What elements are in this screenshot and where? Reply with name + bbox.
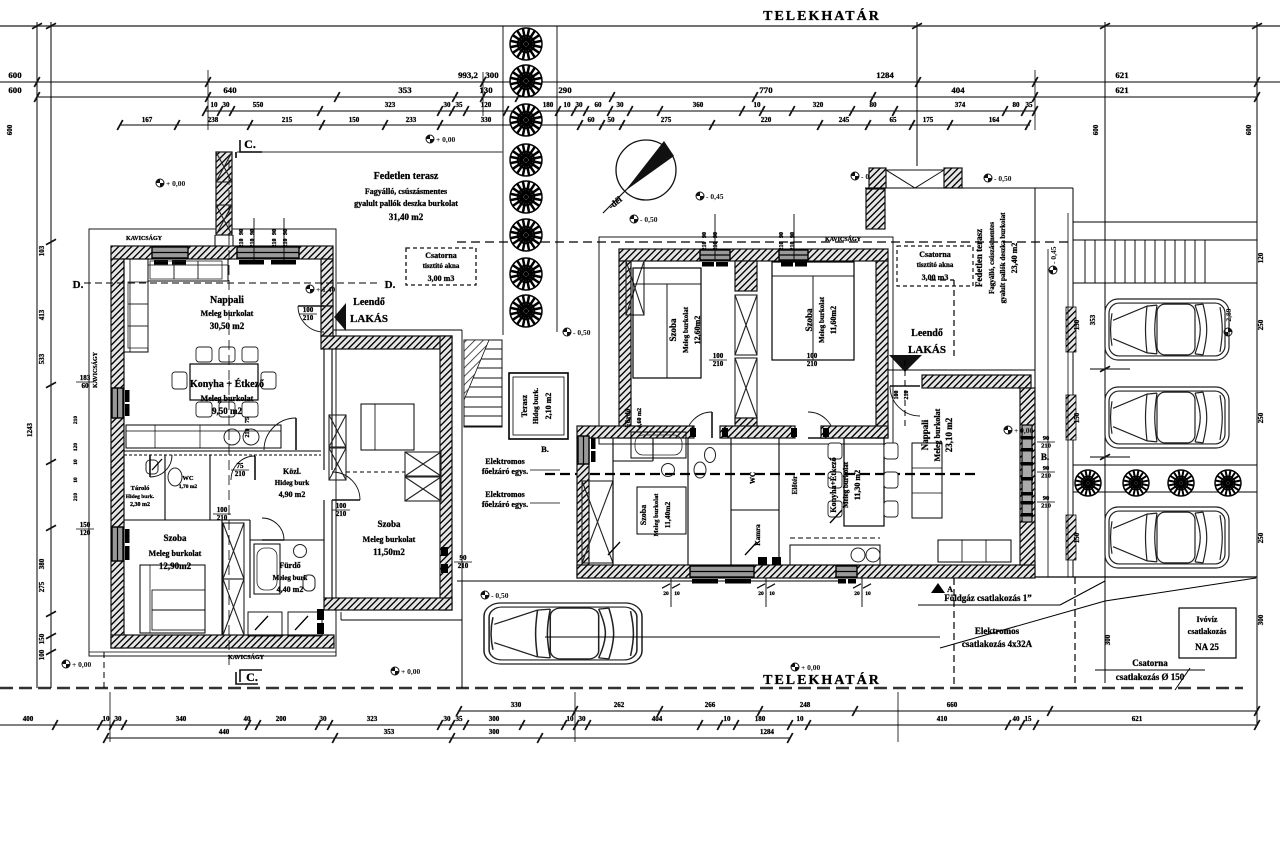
svg-text:120: 120 [80, 529, 91, 537]
svg-text:130: 130 [479, 85, 493, 95]
dashed line mid [545, 473, 975, 475]
svg-text:LAKÁS: LAKÁS [350, 313, 388, 325]
svg-text:90: 90 [702, 232, 708, 238]
svg-text:621: 621 [1115, 70, 1128, 80]
svg-text:Szoba: Szoba [804, 308, 814, 332]
svg-text:30,50 m2: 30,50 m2 [210, 321, 245, 331]
svg-text:60: 60 [588, 116, 596, 124]
svg-text:600: 600 [1092, 124, 1100, 135]
svg-text:Hideg burk: Hideg burk [275, 479, 310, 487]
svg-text:Meleg burkolat: Meleg burkolat [818, 296, 826, 343]
corner pillar B1 [626, 261, 644, 315]
window A left wall [112, 388, 123, 418]
tree strip verticals [502, 26, 504, 335]
svg-text:90: 90 [713, 232, 719, 238]
svg-text:210: 210 [713, 360, 724, 368]
window axis lines B top [714, 214, 716, 261]
cistern box B [897, 246, 973, 286]
svg-text:150: 150 [1073, 532, 1081, 543]
svg-text:12,90m2: 12,90m2 [159, 561, 192, 571]
door arcs interior A [231, 456, 255, 480]
konyha table B [844, 438, 884, 526]
svg-text:220: 220 [761, 116, 772, 124]
svg-text:1284: 1284 [760, 728, 775, 736]
svg-text:330: 330 [481, 116, 492, 124]
svg-text:Meleg burkolat: Meleg burkolat [149, 549, 202, 558]
svg-text:Hideg burk.: Hideg burk. [532, 388, 540, 424]
svg-text:993,2: 993,2 [458, 70, 478, 80]
svg-text:103: 103 [38, 245, 46, 256]
svg-text:10: 10 [674, 591, 680, 597]
svg-text:300: 300 [489, 728, 500, 736]
svg-text:10: 10 [211, 101, 219, 109]
svg-text:LAKÁS: LAKÁS [908, 344, 946, 356]
building B right wall [1020, 388, 1035, 565]
svg-text:Terasz: Terasz [520, 394, 529, 417]
svg-text:770: 770 [759, 85, 773, 95]
svg-text:90: 90 [272, 229, 278, 235]
svg-text:10: 10 [73, 477, 79, 483]
svg-text:210: 210 [458, 562, 469, 570]
svg-text:Elektromos: Elektromos [485, 457, 524, 466]
bed east wing [361, 404, 414, 450]
svg-text:+ 0,00: + 0,00 [436, 135, 456, 144]
svg-text:262: 262 [614, 701, 625, 709]
terrace north edge line [237, 151, 503, 153]
svg-text:210: 210 [239, 239, 245, 248]
svg-text:Fürdő: Fürdő [279, 561, 300, 570]
svg-text:200: 200 [276, 715, 287, 723]
svg-text:Kamra: Kamra [754, 524, 762, 546]
dashed vertical parking edge [1074, 577, 1076, 688]
svg-text:266: 266 [705, 701, 716, 709]
svg-text:353: 353 [384, 728, 395, 736]
svg-text:+ 0,00: + 0,00 [401, 667, 421, 676]
svg-text:167: 167 [142, 116, 153, 124]
glazed door B right wall [1022, 425, 1032, 522]
furdo A label [249, 520, 251, 598]
svg-text:Fedetlen terasz: Fedetlen terasz [974, 229, 984, 287]
wc room fixtures A small row [168, 468, 182, 486]
level marks site left [156, 179, 186, 188]
svg-text:főelzáró egys.: főelzáró egys. [482, 467, 528, 476]
svg-text:Leendő: Leendő [911, 328, 943, 339]
dashed section line x104 [103, 652, 105, 688]
svg-text:210: 210 [245, 429, 251, 438]
svg-text:+ 0,00: + 0,00 [72, 660, 92, 669]
svg-text:Nappali: Nappali [210, 295, 244, 306]
dashed line kitchen B [790, 537, 880, 539]
svg-text:NA 25: NA 25 [1195, 642, 1219, 652]
top dim chain row1 [0, 81, 1280, 83]
svg-text:Hideg burk.: Hideg burk. [126, 494, 155, 500]
svg-text:533: 533 [38, 353, 46, 364]
stall separators [1090, 368, 1130, 370]
svg-text:Leendő: Leendő [353, 297, 385, 308]
svg-text:1,70 m2: 1,70 m2 [179, 484, 198, 490]
door frame A bottom [317, 609, 324, 620]
svg-text:+ 0,00: + 0,00 [801, 663, 821, 672]
svg-text:175: 175 [923, 116, 934, 124]
washbasin A [294, 545, 307, 558]
svg-text:550: 550 [253, 101, 264, 109]
svg-text:640: 640 [223, 85, 237, 95]
svg-text:- 0,50: - 0,50 [994, 174, 1012, 183]
chimney connector lines A [214, 235, 216, 246]
building A top wall [111, 246, 333, 259]
svg-text:3,00 m3: 3,00 m3 [922, 273, 949, 282]
svg-text:210: 210 [713, 242, 719, 251]
ivoviz box [1179, 608, 1236, 658]
door frame B bottom terrace [758, 557, 767, 565]
svg-text:4,60 m2: 4,60 m2 [637, 408, 643, 428]
window A top 2 [237, 247, 299, 258]
svg-text:Nappali: Nappali [920, 419, 930, 450]
svg-text:440: 440 [219, 728, 230, 736]
svg-text:400: 400 [23, 715, 34, 723]
svg-text:320: 320 [813, 101, 824, 109]
svg-text:210: 210 [1041, 443, 1051, 450]
top dim chain row2 [37, 96, 1257, 98]
svg-text:Meleg burk: Meleg burk [273, 574, 308, 582]
svg-text:30: 30 [444, 715, 452, 723]
svg-text:180: 180 [543, 101, 554, 109]
tick stubs below B bottom wall [670, 578, 672, 607]
svg-text:250: 250 [1257, 532, 1265, 543]
svg-text:31,40 m2: 31,40 m2 [389, 212, 424, 222]
building A east wing top wall [321, 336, 452, 349]
svg-text:90: 90 [239, 229, 245, 235]
svg-text:210: 210 [336, 510, 347, 518]
svg-text:210: 210 [807, 360, 818, 368]
svg-text:Szoba: Szoba [377, 519, 401, 529]
svg-text:210: 210 [235, 470, 246, 478]
top dim chain row4 [120, 124, 1030, 126]
svg-text:Meleg burkolat: Meleg burkolat [653, 493, 660, 537]
section A marker south [931, 583, 945, 593]
svg-text:300: 300 [1257, 614, 1265, 625]
trees row lines [1073, 464, 1257, 466]
sofa B [938, 540, 1011, 562]
svg-text:100: 100 [217, 506, 228, 514]
svg-text:80: 80 [1013, 101, 1021, 109]
svg-text:275: 275 [38, 581, 46, 592]
svg-text:KAVICSÁGY: KAVICSÁGY [126, 234, 163, 242]
stairs wedge between buildings [464, 340, 502, 427]
svg-text:404: 404 [652, 715, 663, 723]
svg-text:3,00 m3: 3,00 m3 [428, 274, 455, 283]
building A east wing right wall [440, 336, 452, 610]
svg-text:Meleg burkolat: Meleg burkolat [201, 309, 254, 318]
svg-text:10: 10 [564, 101, 572, 109]
svg-text:Szoba: Szoba [668, 318, 678, 342]
svg-text:65: 65 [890, 116, 898, 124]
building B south block left wall [577, 438, 589, 578]
building B top wall [619, 249, 888, 261]
x shaft partition A [223, 523, 244, 579]
washbasin B bathroom [662, 464, 675, 477]
svg-text:210: 210 [303, 314, 314, 322]
svg-text:1284: 1284 [876, 70, 894, 80]
level on terrace A [426, 135, 456, 144]
svg-text:621: 621 [1115, 85, 1128, 95]
armchair B [912, 443, 942, 518]
svg-text:23,10 m2: 23,10 m2 [944, 417, 954, 452]
svg-text:75: 75 [245, 417, 251, 423]
svg-text:300: 300 [485, 70, 499, 80]
window A left wall lower [112, 527, 123, 561]
svg-text:210: 210 [779, 242, 785, 251]
svg-text:11,50m2: 11,50m2 [373, 547, 405, 557]
building A east wing bottom wall [324, 598, 452, 610]
door arrows A (diagonal leafs) [152, 459, 308, 630]
counter B with sinks [790, 545, 880, 565]
svg-text:180: 180 [755, 715, 766, 723]
svg-text:323: 323 [385, 101, 396, 109]
window B west wall [578, 436, 589, 464]
kitchen counter [126, 425, 281, 448]
svg-text:353: 353 [398, 85, 412, 95]
svg-text:380: 380 [38, 558, 46, 569]
property boundary top line [0, 25, 1280, 27]
svg-text:90: 90 [779, 232, 785, 238]
door black frames east wing wall [441, 547, 448, 556]
svg-text:Fagyálló, csúszásmentes: Fagyálló, csúszásmentes [988, 222, 996, 294]
svg-text:600: 600 [8, 85, 22, 95]
svg-text:100: 100 [38, 649, 46, 660]
entry arrow A [334, 303, 346, 331]
svg-text:300: 300 [489, 715, 500, 723]
building A envelope [89, 229, 336, 656]
svg-text:Fürdő: Fürdő [624, 408, 632, 427]
building B east bedroom wall [876, 261, 888, 438]
svg-text:10: 10 [865, 591, 871, 597]
svg-text:374: 374 [955, 101, 966, 109]
svg-text:621: 621 [1132, 715, 1143, 723]
property boundary bottom dashed line [0, 687, 1243, 690]
svg-text:100: 100 [894, 391, 900, 400]
svg-text:60: 60 [595, 101, 603, 109]
svg-text:4,90 m2: 4,90 m2 [279, 490, 306, 499]
building B mid shaft [735, 261, 757, 291]
svg-text:20: 20 [758, 591, 764, 597]
svg-text:210: 210 [1041, 503, 1051, 510]
building B nappali top wall [922, 375, 1031, 388]
svg-text:Meleg burkolat: Meleg burkolat [682, 306, 690, 353]
svg-text:90: 90 [790, 232, 796, 238]
svg-text:210: 210 [73, 493, 79, 502]
svg-text:80: 80 [870, 101, 878, 109]
level mark near north arrow [630, 215, 658, 224]
svg-text:75: 75 [237, 462, 245, 470]
svg-text:353: 353 [1089, 314, 1097, 325]
car bottom center [484, 603, 642, 664]
svg-text:- 0,50: - 0,50 [573, 328, 591, 337]
bathtub B [631, 432, 686, 458]
elotér partition B [778, 438, 780, 565]
svg-text:600: 600 [6, 124, 14, 135]
svg-text:- 0,50: - 0,50 [640, 215, 658, 224]
svg-text:100: 100 [336, 502, 347, 510]
bottom dim row short [459, 710, 1257, 712]
windows B top wall [700, 250, 730, 260]
svg-text:D.: D. [73, 279, 84, 291]
svg-text:9,50 m2: 9,50 m2 [212, 406, 242, 416]
svg-text:- 2,89: - 2,89 [1224, 308, 1233, 326]
svg-text:10: 10 [754, 101, 762, 109]
svg-text:23,40 m2: 23,40 m2 [1010, 243, 1019, 274]
stairs to parking [1085, 240, 1205, 283]
svg-text:Tároló: Tároló [131, 485, 150, 492]
svg-text:tisztító akna: tisztító akna [917, 261, 954, 269]
szoba bottom-left [221, 520, 223, 635]
parking wheel stop strips [1066, 307, 1076, 352]
svg-text:210: 210 [1041, 473, 1051, 480]
svg-text:30: 30 [115, 715, 123, 723]
svg-text:215: 215 [282, 116, 293, 124]
svg-text:120: 120 [1257, 252, 1265, 263]
window A top 1 [152, 247, 188, 258]
svg-text:164: 164 [989, 116, 1000, 124]
svg-text:30: 30 [223, 101, 231, 109]
svg-text:150: 150 [1073, 319, 1081, 330]
svg-text:35: 35 [456, 715, 464, 723]
top dim chain row3 [205, 110, 1035, 112]
bottom dim row lower [106, 737, 790, 739]
svg-text:Elektromos: Elektromos [485, 490, 524, 499]
svg-text:Meleg burkolat: Meleg burkolat [363, 535, 416, 544]
svg-text:gyalult pallók deszka burkolat: gyalult pallók deszka burkolat [999, 212, 1007, 303]
building B south bottom wall [577, 565, 1035, 578]
svg-text:300: 300 [1104, 634, 1112, 645]
svg-text:248: 248 [800, 701, 811, 709]
chimney pillar C top [216, 152, 232, 235]
svg-text:90: 90 [1043, 435, 1050, 442]
svg-text:30: 30 [444, 101, 452, 109]
svg-text:50: 50 [608, 116, 616, 124]
bedroom door arcs B [686, 412, 712, 438]
svg-text:TELEKHATÁR: TELEKHATÁR [763, 7, 881, 24]
building B left wall [619, 261, 631, 438]
left site verticals [36, 22, 38, 688]
svg-text:90: 90 [1043, 495, 1050, 502]
svg-text:210: 210 [250, 239, 256, 248]
svg-text:Fedetlen terasz: Fedetlen terasz [374, 171, 439, 182]
svg-text:600: 600 [1245, 124, 1253, 135]
svg-text:210: 210 [217, 514, 228, 522]
svg-text:210: 210 [702, 242, 708, 251]
svg-text:35: 35 [456, 101, 464, 109]
trees row east [1075, 470, 1101, 496]
svg-text:660: 660 [947, 701, 958, 709]
svg-text:C.: C. [244, 137, 256, 151]
left vertical dim chain [46, 239, 56, 245]
svg-text:90: 90 [1043, 465, 1050, 472]
svg-text:csatlakozás: csatlakozás [1188, 627, 1227, 636]
svg-text:Csatorna: Csatorna [1132, 658, 1168, 668]
svg-text:11,30 m2: 11,30 m2 [853, 470, 862, 500]
svg-text:Konyha+Étkező: Konyha+Étkező [828, 457, 838, 512]
svg-text:210: 210 [73, 416, 79, 425]
level B entrance [1004, 426, 1034, 435]
bottom dim row main [0, 724, 1257, 726]
corridor wall B hatched with door gaps [577, 426, 694, 438]
svg-text:340: 340 [176, 715, 187, 723]
south block interior B [589, 480, 613, 482]
svg-text:11,60m2: 11,60m2 [829, 306, 838, 334]
svg-text:238: 238 [208, 116, 219, 124]
dashed setback line upper [457, 241, 1072, 243]
svg-text:+ 1,40: + 1,40 [316, 285, 336, 294]
svg-text:Földgáz csatlakozás 1”: Földgáz csatlakozás 1” [944, 593, 1032, 603]
svg-text:323: 323 [367, 715, 378, 723]
svg-text:20: 20 [663, 591, 669, 597]
svg-text:12,60m2: 12,60m2 [693, 316, 702, 345]
svg-text:10: 10 [73, 459, 79, 465]
svg-text:WC: WC [182, 475, 194, 482]
svg-text:20: 20 [854, 591, 860, 597]
windows B bottom wall [690, 566, 754, 577]
building A left wall [111, 259, 124, 648]
svg-text:gyalult pallók deszka burkolat: gyalult pallók deszka burkolat [354, 199, 458, 208]
svg-text:233: 233 [406, 116, 417, 124]
svg-text:90: 90 [460, 554, 468, 562]
svg-text:120: 120 [481, 101, 492, 109]
svg-text:C.: C. [246, 670, 258, 684]
svg-text:KAVICSÁGY: KAVICSÁGY [91, 351, 99, 388]
trees column [510, 28, 542, 60]
svg-text:csatlakozás Ø 150: csatlakozás Ø 150 [1116, 672, 1185, 682]
wc seat A [303, 575, 315, 591]
building A east wall mid [321, 306, 333, 336]
entry arrow B [889, 355, 922, 372]
building A inner east wall upper [321, 259, 333, 306]
nappali entrance door arc B [890, 386, 920, 416]
svg-text:1243: 1243 [26, 423, 34, 438]
svg-text:4,40 m2: 4,40 m2 [277, 585, 304, 594]
svg-text:Szoba: Szoba [639, 505, 648, 525]
svg-text:10: 10 [797, 715, 805, 723]
building A bottom wall [111, 635, 334, 648]
svg-text:Szoba: Szoba [163, 533, 187, 543]
terasz box [509, 373, 568, 439]
svg-text:+ 0,00: + 0,00 [166, 179, 186, 188]
svg-text:Fagyálló, csúszásmentes: Fagyálló, csúszásmentes [365, 187, 447, 196]
svg-text:Meleg burkolat: Meleg burkolat [201, 394, 254, 403]
svg-text:100: 100 [807, 352, 818, 360]
svg-text:100: 100 [713, 352, 724, 360]
svg-text:Csatorna: Csatorna [919, 250, 951, 259]
svg-text:60: 60 [82, 382, 90, 390]
svg-text:275: 275 [661, 116, 672, 124]
sofa nappali [124, 259, 148, 352]
svg-text:413: 413 [38, 309, 46, 320]
svg-text:245: 245 [839, 116, 850, 124]
svg-text:30: 30 [617, 101, 625, 109]
section C marker bottom [240, 670, 262, 682]
parking top line [1073, 221, 1257, 223]
section line C vertical dash [228, 160, 230, 668]
svg-text:10: 10 [103, 715, 111, 723]
svg-text:Előtér: Előtér [791, 476, 799, 495]
door arc A entrance [298, 306, 324, 332]
svg-text:KAVICSÁGY: KAVICSÁGY [228, 653, 265, 661]
wc kamra partitions B [687, 438, 689, 565]
cistern box A [406, 248, 476, 285]
gas connection dashed [953, 578, 955, 688]
svg-text:40: 40 [1013, 715, 1021, 723]
svg-text:10: 10 [769, 591, 775, 597]
